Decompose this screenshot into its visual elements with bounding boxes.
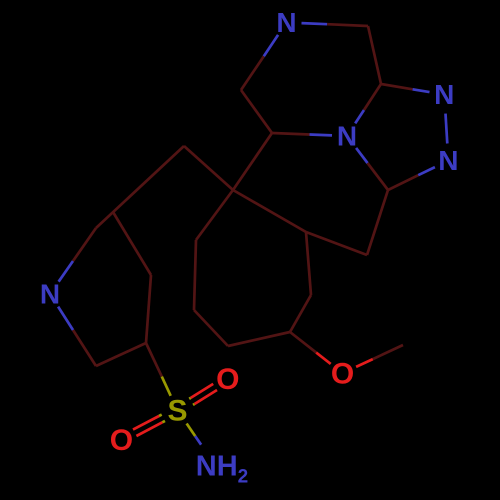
bond ring B2-L2	[194, 310, 228, 346]
svg-text:O: O	[331, 357, 354, 390]
svg-text:N: N	[434, 79, 454, 110]
bond C8a-N1	[381, 84, 413, 89]
double bond S=O upper	[193, 403, 195, 407]
bond ring L-V1	[196, 190, 233, 240]
bond VS-S	[146, 343, 162, 377]
bond VS-Cdn	[96, 343, 146, 366]
svg-text:O: O	[216, 363, 239, 396]
bond S-NH2	[187, 424, 196, 437]
bond N1-N2	[446, 114, 448, 144]
svg-text:N: N	[276, 7, 296, 38]
bond N7-C8	[302, 23, 328, 24]
bond C8-C8a	[368, 26, 381, 84]
bond B-A diagonal	[96, 146, 184, 228]
bond Pj-W	[113, 212, 151, 275]
bond ring VOMe-B2	[228, 332, 290, 346]
bond Cdn-N left	[73, 330, 96, 366]
svg-text:S: S	[167, 395, 187, 428]
bond N-A left	[59, 261, 73, 282]
bond ring R2-VOMe	[290, 295, 311, 332]
bond C3-X bridge	[367, 190, 388, 255]
svg-text:O: O	[110, 424, 133, 457]
bond O-CH3 methyl	[356, 359, 373, 367]
bond C6-N7	[241, 56, 264, 90]
bond W-VS	[146, 275, 151, 343]
bond V1-B link	[184, 146, 233, 190]
bond X-R1 bridge	[306, 232, 367, 255]
svg-text:N: N	[438, 145, 458, 176]
bond ring R1-R2	[306, 232, 311, 295]
bond C3-N4	[368, 163, 389, 190]
bond ring L2-L	[194, 240, 196, 310]
bond N2-C3	[418, 167, 435, 175]
svg-text:N: N	[40, 279, 60, 310]
double bond S=O lower	[159, 415, 162, 416]
bond VOMe-O methoxy	[290, 332, 316, 353]
bond N4-C5	[310, 133, 333, 137]
bond N4-C8a	[355, 110, 364, 123]
bond ring V1-R1	[233, 190, 306, 232]
bond C5-C6	[241, 90, 272, 133]
svg-text:N: N	[337, 121, 357, 152]
bond C5-V1 link	[233, 133, 272, 190]
